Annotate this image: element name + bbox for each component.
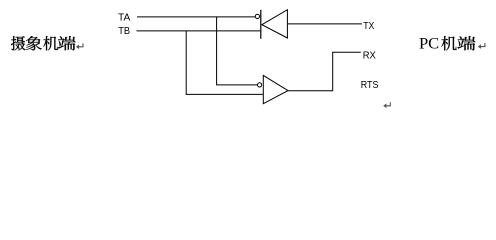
driver U1 input bar (260, 10, 262, 39)
svg-text:TB: TB (118, 25, 130, 37)
driver U1 triangle (points left) (262, 10, 288, 38)
wire TA (137, 16, 255, 18)
paragraph return mark after PC 机端 (478, 43, 485, 49)
svg-text:RX: RX (363, 49, 376, 61)
label 摄 (camera-side caption char 1) (11, 36, 26, 50)
label 端 (camera-side caption char 4) (58, 36, 76, 50)
label 机 (camera-side caption char 3) (43, 36, 58, 50)
svg-text:PC: PC (419, 36, 439, 53)
paragraph return mark bottom (383, 102, 390, 108)
wire TX to driver U1 (288, 23, 362, 25)
label 端 (PC-side caption char 2) (457, 36, 475, 50)
wire TA branch down to receiver inverting input (217, 17, 258, 85)
label 象 (camera-side caption char 2) (26, 36, 42, 50)
wire TB (137, 30, 261, 32)
wire receiver U2 output to RX (288, 52, 361, 91)
driver U1 output bubble on TA (255, 14, 259, 18)
svg-text:RTS: RTS (361, 79, 379, 91)
receiver U2 triangle (points right) (263, 75, 288, 103)
svg-text:TA: TA (118, 12, 130, 24)
receiver U2 inverting input bubble (258, 83, 262, 87)
wire TB branch down to receiver input (186, 31, 263, 95)
label 机 (PC-side caption char 1) (441, 36, 456, 50)
svg-text:TX: TX (363, 20, 374, 32)
paragraph return mark after 摄象机端 (76, 43, 83, 49)
